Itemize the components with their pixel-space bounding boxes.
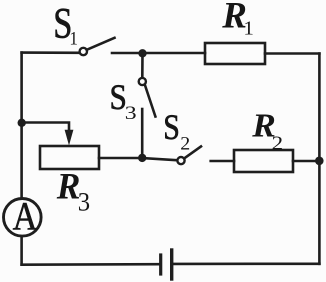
wire R3 to middle junction	[99, 157, 142, 160]
wire R2 to right vertical	[293, 160, 319, 163]
resistor R2	[234, 150, 293, 172]
switch S3	[139, 78, 156, 117]
switch S1	[80, 38, 115, 55]
label R1	[221, 0, 254, 39]
wire ammeter to bottom corner	[20, 236, 23, 264]
wire left vertical top segment	[20, 53, 23, 199]
wire right vertical	[318, 54, 321, 264]
node junction right	[315, 157, 324, 166]
wire S3 to middle junction	[141, 109, 144, 158]
svg-text:A: A	[13, 195, 38, 239]
wire bottom left to battery	[22, 263, 159, 266]
switch S2	[177, 146, 201, 164]
wire battery to bottom right corner	[174, 262, 320, 265]
wire junction top to S3	[141, 53, 144, 78]
svg-text:3: 3	[78, 188, 90, 217]
wire middle junction to S2	[142, 158, 177, 160]
ammeter A1	[4, 199, 42, 237]
wire S1 to R1	[112, 52, 205, 55]
wire top left to switch S1	[22, 51, 80, 54]
svg-text:1: 1	[69, 27, 78, 48]
svg-text:2: 2	[180, 134, 190, 154]
node junction top	[138, 49, 146, 57]
svg-text:2: 2	[272, 132, 284, 154]
wire S2 to R2	[211, 160, 234, 163]
node middle junction	[138, 154, 146, 162]
label S1	[53, 0, 78, 49]
svg-text:R: R	[56, 166, 81, 207]
resistor R1	[205, 43, 265, 64]
rheostat R3	[40, 146, 99, 169]
wire wiper arm	[22, 123, 69, 132]
wiper arrowhead	[65, 130, 74, 146]
label R2	[251, 106, 283, 154]
svg-text:1: 1	[243, 18, 253, 39]
wire R1 to right corner	[265, 52, 319, 55]
node junction left wiper tap	[18, 119, 26, 127]
label S2	[163, 108, 190, 154]
label S3	[110, 78, 137, 123]
battery BT1	[161, 250, 172, 279]
label R3	[56, 166, 90, 217]
svg-text:3: 3	[125, 102, 137, 123]
svg-text:S: S	[163, 108, 180, 147]
